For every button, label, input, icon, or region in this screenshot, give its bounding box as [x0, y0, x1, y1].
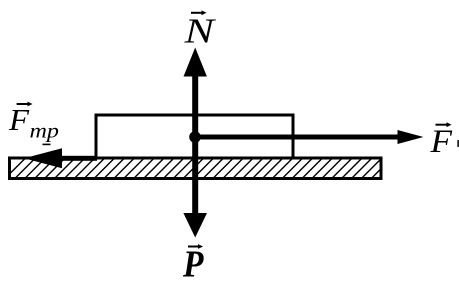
svg-text:P: P [182, 244, 204, 284]
svg-text:N: N [183, 12, 216, 51]
svg-text:F: F [8, 102, 30, 137]
svg-text:F: F [429, 124, 452, 160]
svg-text:тр: тр [30, 121, 60, 143]
